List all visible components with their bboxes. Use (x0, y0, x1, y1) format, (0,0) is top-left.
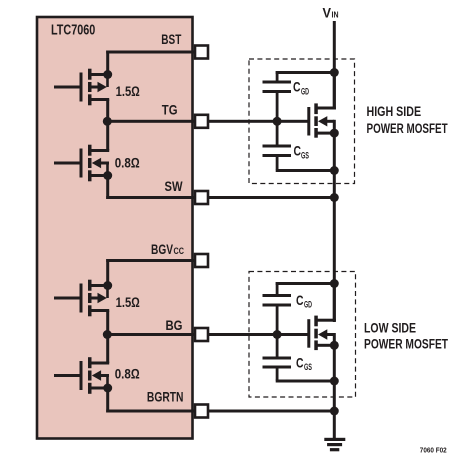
pin BGRTN (195, 405, 208, 418)
power mosfet QH channel mid segment (314, 116, 318, 126)
capacitor CGD top lead (low) (276, 282, 279, 294)
node CGD/BG junction dot (low) (273, 330, 282, 339)
capacitor CGD plate 1 (low) (263, 294, 292, 297)
transistor M1 channel top segment (88, 69, 92, 80)
dashed box low side (249, 272, 356, 398)
svg-text:BGV: BGV (151, 241, 173, 257)
transistor M2 source tap (90, 174, 109, 177)
transistor M3 body arrow (points right) (98, 293, 107, 303)
node rail dot top line (low) (330, 279, 339, 288)
power mosfet QH channel bottom segment (314, 128, 318, 138)
svg-text:BGRTN: BGRTN (147, 389, 184, 405)
transistor M1 drain tap (90, 73, 109, 76)
wire BG to M4 drain (106, 335, 109, 364)
wire M2 source to SW (106, 176, 109, 200)
ground symbol bar 1 (324, 438, 345, 441)
transistor M3 channel mid segment (88, 293, 92, 303)
transistor M4 channel mid segment (88, 371, 92, 381)
dashed box high side (249, 59, 355, 184)
svg-text:LTC7060: LTC7060 (51, 22, 95, 38)
wire CGS bottom line (high) (276, 169, 335, 172)
power mosfet QL channel bottom segment (314, 340, 318, 350)
wire SW horizontal (106, 196, 336, 199)
transistor M2 channel mid segment (88, 158, 92, 168)
svg-text:GD: GD (304, 300, 312, 310)
transistor M4 drain tap (90, 362, 109, 365)
wire BST vertical to M1 drain (106, 51, 109, 77)
svg-text:GS: GS (301, 151, 309, 161)
power mosfet QH channel top segment (314, 103, 318, 114)
svg-text:0.8Ω: 0.8Ω (115, 154, 140, 170)
power mosfet QH body arrow (points left) (318, 116, 327, 126)
transistor M1 gate plate (80, 73, 83, 102)
transistor M2 channel bottom segment (88, 170, 92, 181)
node CGS rail dot (low) (330, 377, 339, 386)
capacitor CGD bottom lead (high) (276, 93, 279, 121)
svg-text:BST: BST (161, 31, 181, 47)
transistor M2 drain tap (90, 149, 109, 152)
pin SW (195, 191, 208, 204)
power mosfet QL drain tap (316, 319, 336, 322)
node QL source dot (330, 341, 339, 350)
power mosfet QH source tap (316, 132, 336, 135)
wire M1 source to TG (106, 100, 109, 122)
svg-text:V: V (323, 6, 332, 21)
transistor M3 drain tap (90, 284, 109, 287)
node BGRTN rail junction dot (330, 407, 339, 416)
transistor M2 body lead (100, 162, 109, 165)
node CGS rail dot (high) (330, 166, 339, 175)
svg-text:BG: BG (166, 317, 183, 333)
transistor M2 gate plate (80, 149, 83, 178)
wire CGS bottom line (low) (276, 380, 335, 383)
transistor M1 1.5ohm PMOS gate lead (54, 86, 80, 89)
transistor M2 body-source connector (106, 163, 109, 176)
node BG junction dot (103, 330, 112, 339)
transistor M3 1.5ohm PMOS gate lead (54, 297, 80, 300)
svg-text:CC: CC (174, 246, 185, 256)
svg-text:GS: GS (304, 362, 312, 372)
svg-text:0.8Ω: 0.8Ω (115, 365, 140, 381)
svg-text:POWER MOSFET: POWER MOSFET (364, 336, 449, 351)
transistor M1 body lead (90, 86, 98, 89)
wire BST horizontal (106, 51, 194, 54)
svg-text:LOW SIDE: LOW SIDE (364, 321, 416, 336)
wire rail QL source to ground (333, 345, 336, 438)
transistor M4 0.8ohm NMOS gate lead (54, 374, 80, 377)
wire VIN rail top (333, 21, 336, 110)
capacitor CGS plate 1 (high) (263, 145, 292, 148)
transistor M4 body arrow (points left) (92, 370, 101, 380)
wire CGD top line (low) (276, 282, 335, 285)
svg-text:7060 F02: 7060 F02 (420, 446, 447, 455)
svg-text:C: C (296, 356, 304, 371)
capacitor CGS top lead (high) (276, 121, 279, 144)
transistor M4 source tap (90, 387, 109, 390)
transistor M3 source tap (90, 309, 109, 312)
transistor M4 body lead (100, 374, 109, 377)
wire M3 source to BG (106, 311, 109, 335)
transistor M3 body-drain connector (106, 286, 109, 299)
transistor M4 gate plate (80, 361, 83, 390)
node M1 drain dot (103, 70, 112, 79)
node M4 source dot (103, 384, 112, 393)
svg-text:C: C (293, 80, 301, 95)
node M2 source dot (103, 171, 112, 180)
transistor M4 channel top segment (88, 357, 92, 368)
svg-text:C: C (296, 293, 304, 308)
capacitor CGS bottom lead (high) (276, 157, 279, 170)
power mosfet QL channel top segment (314, 316, 318, 327)
transistor M2 channel top segment (88, 145, 92, 156)
capacitor CGS top lead (low) (276, 335, 279, 357)
power mosfet QH body-source connector (333, 120, 336, 133)
svg-text:POWER MOSFET: POWER MOSFET (367, 121, 449, 136)
capacitor CGS plate 1 (low) (263, 357, 292, 360)
capacitor CGS plate 2 (high) (263, 154, 292, 157)
transistor M4 channel bottom segment (88, 383, 92, 394)
transistor M2 body arrow (points left) (92, 158, 101, 168)
svg-text:1.5Ω: 1.5Ω (116, 83, 140, 99)
power mosfet QL body-source connector (333, 333, 336, 346)
node CGD/TG junction dot (high) (273, 117, 282, 126)
svg-text:HIGH SIDE: HIGH SIDE (367, 104, 422, 119)
capacitor CGD bottom lead (low) (276, 307, 279, 335)
ground symbol bar 3 (330, 448, 339, 451)
pin BST (195, 46, 208, 59)
transistor M1 body-drain connector (106, 75, 109, 88)
power mosfet QH body lead (326, 120, 334, 123)
power mosfet QL gate plate (307, 319, 310, 348)
wire BGVcc vertical to M3 drain (106, 259, 109, 287)
node M3 drain dot (103, 281, 112, 290)
transistor M1 channel mid segment (88, 82, 92, 92)
node TG junction dot (103, 117, 112, 126)
node QH source dot (330, 129, 339, 138)
transistor M3 body lead (90, 297, 98, 300)
wire BGVcc horizontal (106, 259, 194, 262)
node VIN/CGD rail dot (high side) (330, 68, 339, 77)
transistor M3 channel bottom segment (88, 305, 92, 316)
power mosfet QH gate plate (307, 107, 310, 136)
power mosfet QL body arrow (points left) (318, 329, 327, 339)
transistor M3 channel top segment (88, 280, 92, 291)
ground symbol bar 2 (327, 443, 342, 446)
svg-text:1.5Ω: 1.5Ω (116, 294, 140, 310)
capacitor CGD plate 2 (low) (263, 304, 292, 307)
capacitor CGD plate 1 (high) (263, 81, 292, 84)
power mosfet QL channel mid segment (314, 329, 318, 339)
power mosfet QL source tap (316, 344, 336, 347)
capacitor CGD top lead (high) (276, 71, 279, 81)
IC box LTC7060 (37, 17, 193, 439)
pin BG (195, 328, 208, 341)
pin BGVcc (195, 254, 208, 267)
svg-text:IN: IN (332, 10, 339, 20)
svg-text:TG: TG (162, 102, 178, 118)
wire M4 source to BGRTN (106, 388, 109, 413)
transistor M4 body-source connector (106, 376, 109, 389)
power mosfet QL body lead (326, 333, 334, 336)
power mosfet QH drain vertical (333, 73, 336, 110)
svg-text:SW: SW (165, 178, 184, 194)
wire CGD top line (high) (276, 71, 335, 74)
pin TG (195, 115, 208, 128)
power mosfet QL drain vertical (333, 284, 336, 322)
transistor M2 0.8ohm NMOS gate lead (54, 162, 80, 165)
capacitor CGS bottom lead (low) (276, 369, 279, 381)
wire TG to M2 drain (106, 121, 109, 150)
svg-text:GD: GD (301, 87, 309, 97)
transistor M1 body arrow (points right) (98, 82, 107, 92)
capacitor CGD plate 2 (high) (263, 90, 292, 93)
wire rail QH source to low side drain (333, 133, 336, 322)
transistor M1 channel bottom segment (88, 94, 92, 105)
power mosfet QH drain tap (316, 107, 336, 110)
transistor M1 source tap (90, 98, 109, 101)
wire BG horizontal (106, 333, 308, 336)
transistor M3 gate plate (80, 284, 83, 313)
capacitor CGS plate 2 (low) (263, 366, 292, 369)
node SW rail junction dot (330, 193, 339, 202)
wire BGRTN horizontal (106, 410, 336, 413)
wire TG horizontal (106, 120, 308, 123)
